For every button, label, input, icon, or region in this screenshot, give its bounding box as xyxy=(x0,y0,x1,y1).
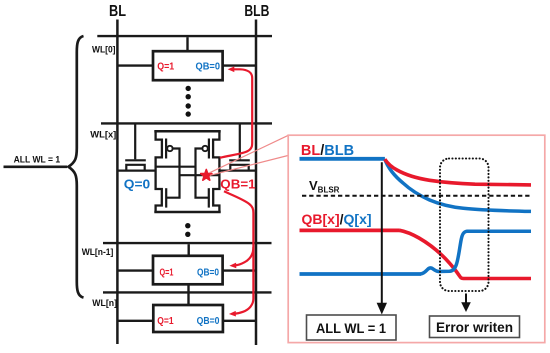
wire box1 left xyxy=(118,64,153,66)
svg-text:Q=0: Q=0 xyxy=(124,177,150,191)
wordline WL[x] xyxy=(101,122,272,124)
svg-text:Q=1: Q=1 xyxy=(157,61,174,72)
wire gate right inverter xyxy=(196,149,209,198)
wire stub box4 top xyxy=(187,294,189,306)
bitline BLB xyxy=(255,20,258,346)
access transistor right gate riser xyxy=(239,123,241,159)
star marker node QB xyxy=(201,170,212,181)
svg-text:Q=1: Q=1 xyxy=(160,268,174,279)
waveform QB[x] high red xyxy=(300,228,400,232)
svg-text:ALL WL = 1: ALL WL = 1 xyxy=(14,154,61,164)
svg-text:QB=0: QB=0 xyxy=(196,61,221,72)
wire box3 left xyxy=(118,269,153,271)
wordline WL[0] xyxy=(97,35,272,37)
cell box 3 xyxy=(153,256,223,284)
svg-text:QB=1: QB=1 xyxy=(220,177,255,191)
label box ALL WL = 1 xyxy=(307,315,397,340)
node QB column right boundary xyxy=(213,131,219,212)
waveform Q[x] rise blue xyxy=(421,231,532,274)
wire stub box1 top xyxy=(186,37,188,51)
wire box4 left xyxy=(118,320,153,322)
access transistor left gate riser xyxy=(134,123,136,159)
svg-text:QB[x]/Q[x]: QB[x]/Q[x] xyxy=(302,211,372,227)
wordline WL[n] xyxy=(103,291,272,293)
waveform Q[x] low blue xyxy=(300,272,422,276)
svg-text:QB=0: QB=0 xyxy=(197,268,219,279)
transistor PR gate plate xyxy=(208,139,210,159)
svg-text:Q=1: Q=1 xyxy=(157,316,174,327)
red arrow trunk to box3 box4 xyxy=(224,191,253,313)
wire cell to BLB xyxy=(219,170,256,172)
transistor PL gate plate xyxy=(165,139,167,159)
wire box4 right xyxy=(223,320,256,322)
waveform BLB decay blue xyxy=(385,159,531,211)
wire cross-couple QB xyxy=(180,174,220,176)
svg-text:WL[x]: WL[x] xyxy=(90,129,116,139)
cell box 4 xyxy=(153,305,223,332)
dotted region error xyxy=(440,159,489,292)
access transistor right gate plate xyxy=(229,159,250,161)
wire box1 right xyxy=(223,64,256,66)
cell box 1 xyxy=(153,51,223,80)
wire gate left inverter xyxy=(167,149,180,198)
wire box3 right xyxy=(223,269,256,271)
svg-text:WL[n]: WL[n] xyxy=(92,298,117,308)
arrow error event xyxy=(465,294,467,304)
svg-text:QB=0: QB=0 xyxy=(197,316,220,327)
transistor NR gate plate xyxy=(208,188,210,207)
dashed line V_BLSR xyxy=(302,195,531,197)
waveform QB[x] fall red xyxy=(400,230,532,278)
access transistor right channel xyxy=(230,165,248,171)
wire stub box3 bottom xyxy=(187,284,189,292)
wordline WL[n-1] xyxy=(103,242,272,244)
bitline BL xyxy=(116,20,119,345)
transistor PL bubble xyxy=(167,146,172,151)
brace ALL WL xyxy=(68,36,83,298)
zoom panel pink border xyxy=(288,135,545,342)
6T cell rail GND xyxy=(154,211,220,214)
svg-text:WL[0]: WL[0] xyxy=(92,45,116,55)
node Q column left boundary xyxy=(156,131,162,212)
callout line upper xyxy=(210,135,289,173)
waveform BL decay red xyxy=(385,159,531,185)
access transistor left gate plate xyxy=(125,159,146,161)
wire stub box3 top xyxy=(187,244,189,256)
svg-text:Error writen: Error writen xyxy=(436,320,513,335)
red arrow to box1 xyxy=(220,69,252,158)
red arrow branch to box3 xyxy=(235,247,254,265)
svg-text:BL/BLB: BL/BLB xyxy=(301,143,354,159)
label box Error writen xyxy=(430,316,520,338)
wire BL to cell xyxy=(117,170,155,172)
column dots lower xyxy=(185,223,190,237)
access transistor left channel xyxy=(126,165,144,171)
svg-text:BL: BL xyxy=(109,3,126,20)
svg-text:BLB: BLB xyxy=(244,3,269,20)
waveform BLB high blue xyxy=(300,157,385,161)
pointer line ALL WL xyxy=(4,165,68,168)
column dots upper xyxy=(186,86,191,117)
callout line lower xyxy=(210,156,288,176)
transistor NL gate plate xyxy=(165,188,167,207)
svg-text:ALL WL = 1: ALL WL = 1 xyxy=(316,321,386,336)
svg-text:WL[n-1]: WL[n-1] xyxy=(82,247,114,257)
arrow ALL WL event xyxy=(381,162,383,303)
6T cell rail VDD xyxy=(154,130,220,133)
transistor PR bubble xyxy=(202,146,207,151)
wire cross-couple Q xyxy=(156,166,196,168)
